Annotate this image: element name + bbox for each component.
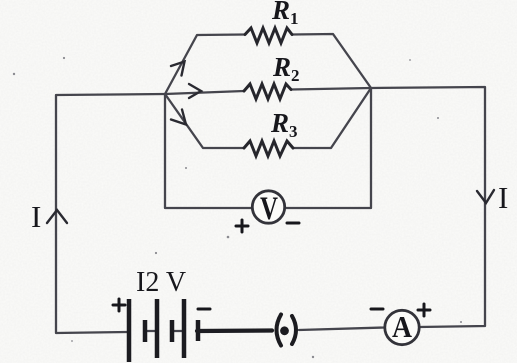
svg-text:V: V — [260, 191, 278, 227]
svg-text:I: I — [498, 180, 508, 215]
svg-text:A: A — [392, 309, 413, 344]
svg-text:I: I — [31, 199, 41, 234]
svg-text:I2 V: I2 V — [136, 267, 186, 298]
